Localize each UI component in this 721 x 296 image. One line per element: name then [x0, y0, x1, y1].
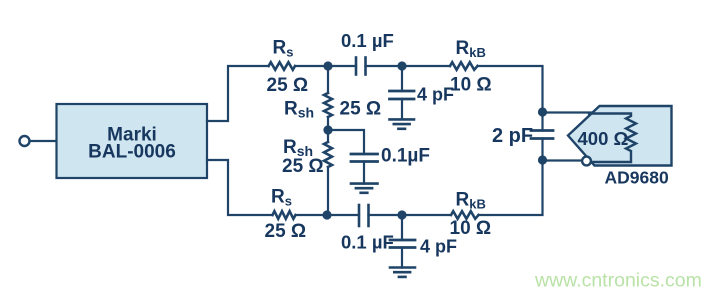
wire Rsh2 to bottom rail	[327, 167, 329, 215]
balun U1 Marki BAL-0006	[57, 104, 208, 178]
svg-text:25 Ω: 25 Ω	[267, 75, 309, 96]
svg-text:25 Ω: 25 Ω	[282, 156, 324, 177]
resistor Rs top	[269, 62, 295, 70]
svg-text:4 pF: 4 pF	[417, 85, 454, 105]
svg-text:BAL-0006: BAL-0006	[88, 142, 176, 163]
resistor RkB bottom	[451, 211, 479, 219]
node top-B	[397, 61, 406, 70]
svg-text:0.1 µF: 0.1 µF	[341, 232, 394, 253]
node right-bottom	[538, 155, 547, 164]
svg-text:25 Ω: 25 Ω	[340, 99, 382, 120]
capacitor C5 4pF bottom shunt	[401, 215, 403, 240]
node right-top	[538, 107, 547, 116]
resistor Rs bottom	[273, 211, 296, 219]
ground top	[390, 118, 415, 121]
ground bottom	[390, 266, 415, 269]
node top-A	[323, 61, 332, 70]
wire RkB bottom to right vertical	[479, 160, 543, 215]
ADC U2 AD9680 body	[568, 106, 672, 166]
wire Rs bottom to series cap	[296, 214, 360, 216]
resistor Rsh2 25 ohm	[324, 142, 332, 167]
capacitor C4 0.1uF bottom series	[358, 205, 361, 226]
resistor RkB top	[450, 62, 478, 70]
svg-text:2 pF: 2 pF	[492, 125, 533, 147]
ADC input pin circle	[582, 157, 591, 166]
wire to ADC plus input	[543, 111, 592, 113]
svg-text:4 pF: 4 pF	[420, 237, 457, 257]
wire input to balun	[30, 140, 57, 142]
wire shunt column top	[327, 66, 329, 93]
wire Rsh1 to node mid	[327, 117, 329, 142]
node bottom-A	[322, 210, 331, 219]
wire RkB top to right vertical	[478, 66, 543, 112]
svg-text:0.1µF: 0.1µF	[381, 146, 430, 167]
wire Rs to series cap	[296, 65, 357, 67]
wire balun bottom output to bottom rail	[207, 160, 273, 215]
wire balun top output to top rail	[207, 66, 269, 121]
wire series cap to RkB top	[366, 65, 451, 67]
wire node mid to mid cap	[328, 130, 364, 154]
svg-text:0.1 µF: 0.1 µF	[341, 30, 394, 51]
node mid	[323, 125, 332, 134]
resistor R 400 ohm internal	[589, 114, 636, 163]
svg-text:10 Ω: 10 Ω	[450, 218, 492, 239]
svg-text:www.cntronics.com: www.cntronics.com	[534, 270, 702, 292]
resistor Rsh1 25 ohm	[324, 93, 332, 117]
svg-text:400 Ω: 400 Ω	[578, 128, 629, 149]
capacitor C2 4pF top shunt	[401, 66, 403, 91]
wire to ADC minus input	[543, 159, 583, 161]
wire series cap to RkB bottom	[369, 214, 452, 216]
capacitor C1 0.1uF top series	[355, 58, 358, 75]
ground mid	[351, 182, 378, 185]
node bottom-B	[397, 210, 406, 219]
capacitor C6 2pF	[541, 112, 543, 131]
svg-text:25 Ω: 25 Ω	[265, 221, 307, 242]
input terminal	[20, 136, 30, 146]
capacitor C3 0.1uF mid shunt	[351, 153, 378, 156]
svg-text:10 Ω: 10 Ω	[450, 75, 492, 96]
svg-text:AD9680: AD9680	[605, 168, 669, 188]
